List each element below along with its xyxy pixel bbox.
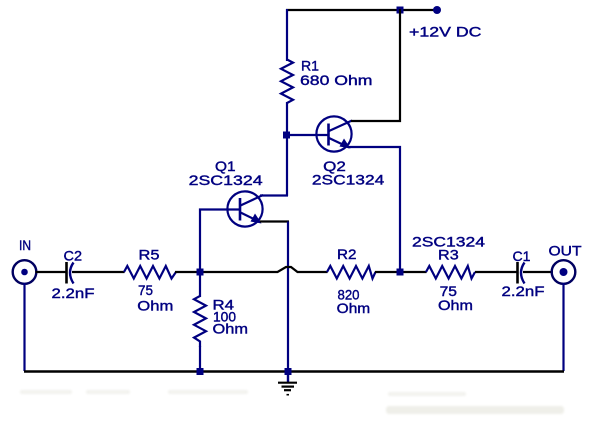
resistor R1 <box>281 60 293 104</box>
wire top supply rail <box>286 9 437 11</box>
wire Q2 base lead <box>288 134 328 136</box>
svg-text:Ohm: Ohm <box>137 298 173 314</box>
wire Q1 emitter <box>260 220 289 222</box>
svg-text:75: 75 <box>138 282 153 298</box>
node R4 ground junction <box>197 368 204 375</box>
wire Q2 collector to +12V <box>351 9 400 121</box>
node R1/Q2 base junction <box>283 132 290 139</box>
wire R1 top lead <box>286 9 288 61</box>
wire ground stub <box>287 373 289 383</box>
wire R1 bottom lead / Q1 collector riser <box>286 102 288 196</box>
node +12V junction <box>397 7 404 14</box>
faint erased watermark smudges <box>20 390 564 414</box>
svg-text:680 Ohm: 680 Ohm <box>300 72 373 88</box>
svg-text:Ohm: Ohm <box>213 321 249 337</box>
wire R5 to R2 with hop over emitter line <box>175 267 328 272</box>
svg-text:2.2nF: 2.2nF <box>52 285 95 301</box>
resistor R3 <box>426 266 475 279</box>
wire C2 to R5 <box>72 271 125 273</box>
wire R4 bottom lead <box>199 346 201 371</box>
svg-text:+12V DC: +12V DC <box>409 23 482 39</box>
resistor R5 <box>124 266 176 279</box>
transistor Q1 <box>227 191 263 226</box>
wire Q1 collector <box>260 194 288 196</box>
wire C1 to OUT <box>523 271 553 273</box>
wire Q2 emitter to output node <box>349 147 400 271</box>
svg-text:C2: C2 <box>64 248 83 264</box>
connector IN <box>13 260 37 284</box>
resistor R2 <box>327 266 376 279</box>
wire bottom ground rail <box>24 370 564 372</box>
svg-text:R5: R5 <box>139 247 160 263</box>
svg-text:OUT: OUT <box>549 243 582 259</box>
svg-text:IN: IN <box>19 237 31 253</box>
svg-text:Ohm: Ohm <box>337 300 371 316</box>
+12V terminal dot <box>433 6 441 14</box>
wire R2 to R3 <box>375 271 427 273</box>
resistor R4 <box>194 296 206 347</box>
wire R4 top lead <box>199 271 201 297</box>
wire IN drop to ground rail <box>23 283 25 371</box>
svg-text:Ohm: Ohm <box>438 297 473 313</box>
connector OUT <box>552 260 576 284</box>
wire Q1 emitter to ground <box>287 222 289 372</box>
wire Q1 base lead <box>200 210 240 273</box>
svg-text:2SC1324: 2SC1324 <box>312 172 385 188</box>
wire IN to C2 <box>36 271 67 273</box>
node input junction <box>197 269 204 276</box>
svg-text:2.2nF: 2.2nF <box>502 283 545 299</box>
svg-text:R3: R3 <box>438 247 459 263</box>
svg-text:R2: R2 <box>337 246 357 262</box>
ground <box>278 383 297 395</box>
wire OUT drop to ground rail <box>562 283 564 371</box>
wire R3 to C1 <box>475 271 517 273</box>
node output junction <box>397 269 404 276</box>
capacitor C2 <box>67 262 74 284</box>
node ground junction <box>285 368 292 375</box>
capacitor C1 <box>518 262 525 284</box>
svg-text:2SC1324: 2SC1324 <box>189 172 263 188</box>
transistor Q2 <box>316 116 352 151</box>
svg-text:C1: C1 <box>513 248 531 264</box>
